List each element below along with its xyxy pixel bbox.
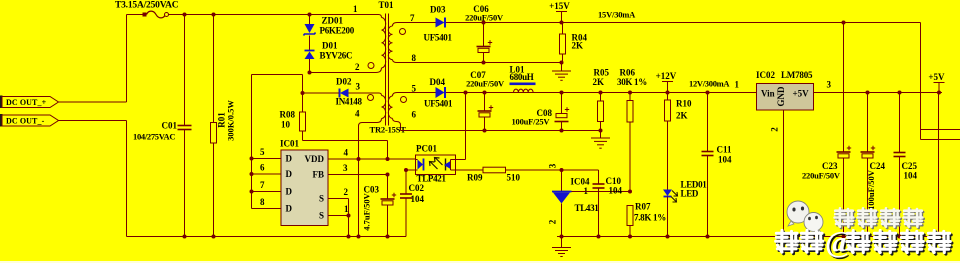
svg-text:7.8K 1%: 7.8K 1% [634, 213, 666, 223]
resistor R08 10 [280, 110, 306, 132]
watermark text line1 [835, 208, 924, 228]
svg-text:D: D [286, 204, 293, 214]
PC01 internal LED [418, 160, 424, 170]
svg-text:220uF/50V: 220uF/50V [802, 171, 841, 181]
svg-text:6: 6 [260, 163, 265, 173]
svg-text:GND: GND [776, 86, 786, 107]
PC01 light arrows [430, 162, 438, 170]
svg-text:2K: 2K [676, 111, 688, 121]
node C11 top [706, 91, 710, 95]
IC01 pin 1 wire [328, 215, 349, 217]
secondary winding pins 5-6 [393, 93, 398, 97]
diode D04 UF5401 [424, 77, 453, 109]
node C03 bottom [386, 235, 390, 239]
diode D03 UF5401 [424, 5, 453, 43]
node IC02 gnd bottom [782, 235, 786, 239]
watermark wechat logo [787, 201, 823, 234]
svg-text:IC01: IC01 [280, 139, 300, 149]
svg-text:15V/30mA: 15V/30mA [598, 10, 636, 20]
node R10 top [666, 91, 670, 95]
primary winding pins 3-4 [379, 93, 382, 96]
wire D01 to transformer pin 2 [310, 72, 377, 74]
capacitor C23 220uF/50V [802, 23, 851, 237]
svg-text:8: 8 [260, 197, 265, 207]
svg-text:2K: 2K [572, 41, 584, 51]
svg-text:3: 3 [343, 163, 348, 173]
svg-text:100uF/25V: 100uF/25V [512, 117, 551, 127]
svg-text:10: 10 [281, 120, 291, 130]
svg-text:+5V: +5V [793, 89, 810, 99]
wire primary bottom rail [127, 236, 407, 238]
node C07 bottom [483, 129, 487, 133]
node C11 bottom [706, 235, 710, 239]
IC01 pin 5 wire [252, 158, 282, 160]
wire pin8 return [397, 62, 562, 64]
wire secondary bottom rail [557, 236, 949, 238]
node R04 top [560, 21, 564, 25]
bottom edge light strip [0, 261, 960, 263]
node LED01 bottom [666, 235, 670, 239]
svg-text:DC OUT_-: DC OUT_- [6, 117, 45, 126]
pin 7 phase dot [400, 29, 406, 35]
connector DC OUT_- [0, 114, 59, 127]
node C01 bottom [183, 235, 187, 239]
IC02 LM7805 regulator [756, 70, 814, 110]
svg-text:ZD01: ZD01 [322, 16, 344, 26]
svg-text:R09: R09 [467, 173, 483, 183]
node S pins to primary ground rail [347, 235, 351, 239]
svg-text:TLP421: TLP421 [417, 174, 447, 184]
capacitor C24 100uF/50V [861, 93, 886, 237]
svg-text:30K 1%: 30K 1% [617, 77, 647, 87]
node R01 top [212, 13, 216, 17]
svg-text:D: D [286, 154, 293, 164]
svg-text:2: 2 [548, 219, 558, 224]
IC01 pin 2 wire [328, 198, 349, 200]
zener ZD01 P6KE200 [304, 15, 355, 36]
svg-text:D04: D04 [430, 77, 446, 87]
svg-text:104: 104 [718, 155, 732, 165]
svg-text:R07: R07 [635, 202, 651, 212]
power +5V [934, 82, 945, 84]
TL431 IC04 [548, 163, 600, 236]
svg-text:3: 3 [827, 80, 832, 90]
ground secondary return [591, 131, 610, 149]
svg-text:UF5401: UF5401 [424, 99, 453, 109]
svg-text:BYV26C: BYV26C [320, 51, 353, 61]
capacitor C08 100uF/25V [512, 93, 570, 131]
node R07 bottom [628, 235, 632, 239]
capacitor C10 104 [562, 170, 623, 237]
node pin4 rail bottom [357, 235, 361, 239]
node C06 top [482, 21, 486, 25]
svg-text:510: 510 [507, 173, 521, 183]
wire PC01 emitter-led return [406, 169, 416, 171]
svg-text:2K: 2K [593, 77, 605, 87]
node C08 top [560, 91, 564, 95]
node C01 top [183, 13, 187, 17]
node C02 top [404, 168, 408, 172]
svg-text:6: 6 [412, 110, 417, 120]
node D02 anode to R08 [301, 91, 305, 95]
resistor R10 2K [665, 93, 692, 190]
node R04 bottom [560, 61, 564, 65]
svg-text:+5V: +5V [928, 72, 945, 82]
power +15V [556, 11, 567, 13]
svg-text:2: 2 [344, 187, 349, 197]
node C23 bottom [842, 235, 846, 239]
svg-text:220uF/50V: 220uF/50V [466, 79, 505, 89]
wire TL431 ref [572, 191, 631, 193]
wire transformer pin4 down [358, 126, 360, 237]
svg-text:+12V: +12V [656, 71, 677, 81]
primary winding pins 1-2 [379, 15, 382, 18]
wire pin7 to D03 [397, 22, 436, 24]
svg-text:TL431: TL431 [575, 203, 600, 213]
svg-text:100uF/50V: 100uF/50V [866, 169, 876, 210]
wire left bus upper segment [126, 15, 128, 103]
node ZD01 top [308, 13, 312, 17]
ground primary aux [552, 63, 571, 81]
resistor R06 30K 1% [617, 68, 647, 192]
svg-text:R06: R06 [620, 68, 636, 78]
svg-text:IN4148: IN4148 [336, 97, 363, 107]
svg-text:C01: C01 [162, 121, 178, 131]
IC01 pin 8 wire [252, 208, 282, 210]
capacitor C25 104 [894, 93, 918, 237]
node TL431 anode bottom [560, 235, 564, 239]
diode D01 BYV26C [305, 36, 353, 73]
svg-text:IC02: IC02 [756, 70, 776, 80]
wire pin6 secondary return rail [401, 130, 601, 132]
node D01 anode junction [308, 71, 312, 75]
svg-text:VDD: VDD [305, 154, 325, 164]
secondary winding pins 7-8 [393, 23, 398, 27]
svg-text:2: 2 [770, 127, 780, 132]
svg-text:TR2-15ST: TR2-15ST [370, 125, 407, 135]
svg-text:7: 7 [410, 13, 415, 23]
svg-text:D01: D01 [322, 41, 338, 51]
node C25 top [898, 91, 902, 95]
svg-text:D: D [286, 187, 293, 197]
node FB vertical top [386, 157, 390, 161]
wire R08 bottom to FB vertical [302, 131, 304, 141]
pin 2 phase dot [368, 63, 374, 69]
svg-text:C10: C10 [606, 176, 622, 186]
svg-text:S: S [319, 194, 324, 204]
svg-text:T3.15A/250VAC: T3.15A/250VAC [115, 1, 179, 11]
wire 5V rail [814, 92, 943, 94]
core [385, 14, 387, 126]
svg-text:104: 104 [411, 194, 425, 204]
svg-text:PC01: PC01 [416, 144, 437, 154]
IC U1 IC01 box [280, 139, 328, 226]
svg-text:2: 2 [355, 62, 360, 72]
node R01 bottom [212, 235, 216, 239]
IC01 pin 7 wire [252, 191, 282, 193]
svg-text:D02: D02 [336, 77, 352, 87]
connector DC OUT_+ [0, 96, 59, 109]
IC02 pin 2 GND wire [783, 110, 785, 237]
svg-text:3: 3 [548, 163, 558, 168]
pin 5 phase dot [401, 97, 407, 103]
node C10 bottom [597, 235, 601, 239]
node C06 bottom [482, 61, 486, 65]
resistor R09 510 [456, 167, 562, 182]
svg-text:8: 8 [412, 53, 417, 63]
node +5V stem [937, 91, 941, 95]
wire 15V rail [446, 22, 921, 24]
pin 3 phase dot [368, 95, 374, 101]
node pin4 wire junction [357, 157, 361, 161]
wire 12V rail [446, 92, 757, 94]
svg-text:R10: R10 [676, 99, 692, 109]
wire top rail [169, 14, 379, 16]
svg-text:104: 104 [904, 171, 918, 181]
svg-text:FB: FB [312, 170, 324, 180]
svg-text:300K/0.5W: 300K/0.5W [226, 100, 236, 141]
capacitor C02 104 [400, 170, 425, 237]
svg-text:LED: LED [681, 189, 699, 199]
svg-text:104: 104 [609, 186, 623, 196]
svg-text:12V/300mA: 12V/300mA [689, 79, 730, 89]
resistor R01 300K/0.5W [211, 15, 236, 237]
capacitor C06 220uF/50V [465, 4, 504, 63]
svg-text:LM7805: LM7805 [781, 70, 813, 80]
node C07 top [483, 91, 487, 95]
wire pin5 to D04 [397, 92, 436, 94]
wire R08 top net [302, 75, 304, 113]
fuse T3.15A/250VAC [115, 1, 179, 18]
svg-text:+15V: +15V [549, 1, 570, 11]
svg-text:104/275VAC: 104/275VAC [133, 132, 175, 142]
node R05 bottom [599, 129, 603, 133]
node PC01 collector [464, 91, 468, 95]
svg-text:1: 1 [344, 204, 349, 214]
svg-text:1: 1 [735, 80, 740, 90]
resistor R07 7.8K 1% [627, 202, 666, 237]
wire pin3 to D02 [349, 92, 380, 94]
node R05 top [599, 91, 603, 95]
node ref junction [628, 190, 632, 194]
svg-text:3: 3 [356, 82, 361, 92]
node C24 bottom [866, 235, 870, 239]
svg-text:DC OUT_+: DC OUT_+ [6, 98, 47, 107]
node R06 top [628, 91, 632, 95]
svg-text:C03: C03 [364, 185, 380, 195]
ground secondary main [552, 237, 571, 257]
IC01 pin 4 VDD wire [328, 158, 416, 160]
svg-text:R05: R05 [594, 68, 610, 78]
capacitor C07 220uF/50V [466, 70, 505, 131]
svg-text:C23: C23 [822, 161, 838, 171]
transformer T01 TR2-15ST [353, 0, 417, 135]
watermark text line2 [776, 224, 952, 261]
svg-text:IC04: IC04 [571, 177, 591, 187]
IC01 pin 3 FB wire [328, 174, 388, 176]
wire DC OUT_+ to left bus [59, 101, 127, 103]
svg-text:1: 1 [353, 4, 358, 14]
wire DC OUT_- to left bus [59, 120, 127, 122]
svg-text:C25: C25 [902, 161, 918, 171]
node C24 top [866, 91, 870, 95]
svg-text:Vin: Vin [761, 89, 775, 99]
svg-text:C02: C02 [409, 183, 425, 193]
svg-text:220uF/50V: 220uF/50V [465, 13, 504, 23]
node C25 bottom [898, 235, 902, 239]
svg-text:4: 4 [344, 148, 349, 158]
svg-text:R08: R08 [280, 110, 296, 120]
svg-text:7: 7 [260, 180, 265, 190]
svg-text:P6KE200: P6KE200 [320, 26, 355, 36]
wire 15V to right edge [920, 23, 922, 140]
node C23 top on 15V rail [842, 21, 846, 25]
svg-text:D03: D03 [430, 5, 446, 15]
svg-text:D: D [286, 169, 293, 179]
capacitor C01 104/275VAC [133, 15, 192, 237]
diode D02 IN4148 [303, 77, 363, 107]
node C08 bottom [560, 129, 564, 133]
svg-text:4: 4 [355, 109, 360, 119]
svg-text:S: S [319, 211, 324, 221]
LED01 [663, 180, 707, 237]
svg-text:UF5401: UF5401 [424, 33, 453, 43]
node TL431 cathode junction [560, 168, 564, 172]
svg-text:C24: C24 [870, 161, 886, 171]
power +12V [662, 81, 673, 83]
resistor R04 2K [560, 23, 588, 63]
inductor L01 680uH [510, 65, 536, 93]
wire left bus lower segment [126, 121, 128, 237]
wire PC01 collector to 12V rail [456, 159, 466, 161]
wire +5V down right [938, 93, 940, 237]
node right bottom [937, 235, 941, 239]
capacitor C11 104 [702, 93, 733, 237]
svg-text:4.7uF/50V: 4.7uF/50V [362, 192, 372, 230]
IC01 pin 6 wire [252, 173, 282, 175]
svg-text:5: 5 [260, 147, 265, 157]
resistor R05 2K [593, 68, 610, 131]
capacitor C03 4.7uF/50V [362, 173, 397, 237]
svg-text:T01: T01 [379, 0, 395, 10]
PC01 phototransistor [445, 159, 447, 171]
optocoupler PC01 TLP421 [416, 144, 456, 184]
svg-text:680uH: 680uH [510, 72, 534, 82]
svg-text:C11: C11 [717, 145, 733, 155]
